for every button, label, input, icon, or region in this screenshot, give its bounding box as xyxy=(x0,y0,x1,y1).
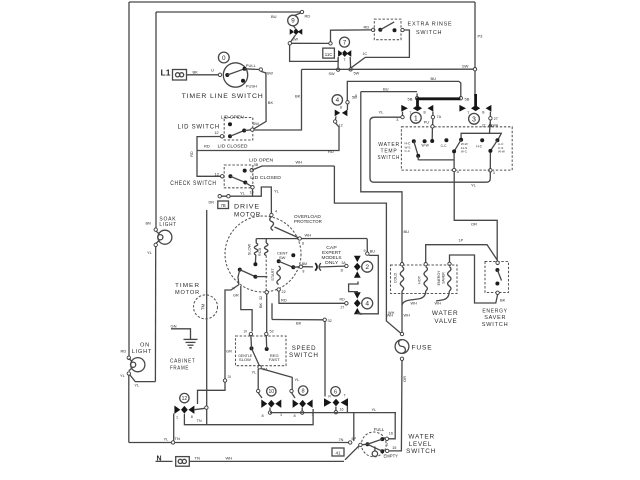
wire GN stub xyxy=(171,329,191,339)
svg-text:YL: YL xyxy=(147,250,153,255)
wire bowtie 12 right to terminal xyxy=(194,408,205,409)
wire rcb dashed down xyxy=(265,256,267,291)
node terminal above connector 10 xyxy=(257,389,260,392)
node terminal 5B near circle4 xyxy=(346,101,349,104)
contact motor lower-left blade xyxy=(240,270,256,277)
svg-text:ONLY: ONLY xyxy=(325,260,339,265)
wire blade to SW terminal xyxy=(244,129,251,132)
wire YL drop to water level switch xyxy=(389,413,396,439)
svg-text:27: 27 xyxy=(341,306,345,310)
node terminal timer line switch right xyxy=(259,68,262,71)
svg-text:SW: SW xyxy=(329,72,336,76)
contact speed slow dot xyxy=(250,346,254,350)
wire outer loop left lower xyxy=(128,374,130,443)
badge circle 7 xyxy=(340,37,350,47)
contact cent sw blade xyxy=(279,261,294,267)
svg-text:7B: 7B xyxy=(221,203,226,208)
svg-text:W-C: W-C xyxy=(461,150,468,154)
switch extra rinse dashed box xyxy=(374,19,401,40)
svg-text:8: 8 xyxy=(303,270,305,274)
svg-text:5B: 5B xyxy=(352,95,357,100)
svg-text:TN: TN xyxy=(175,436,180,441)
svg-text:RD: RD xyxy=(305,14,311,19)
svg-text:WH: WH xyxy=(411,302,418,306)
svg-text:1: 1 xyxy=(176,415,178,419)
contact cent sw dot upper xyxy=(291,253,295,257)
node terminal check switch left xyxy=(221,175,224,178)
contact temp 6 dot xyxy=(495,138,499,142)
svg-text:ENERGY: ENERGY xyxy=(437,270,441,285)
node terminal soak light bottom xyxy=(154,243,157,246)
motor drive motor dashed circle xyxy=(225,216,301,292)
svg-text:LID CLOSED: LID CLOSED xyxy=(250,175,281,180)
wire jog between connectors 2 and 4 xyxy=(349,282,358,292)
node terminal cold top xyxy=(400,263,403,266)
wire YL bus to motor overload xyxy=(253,187,272,213)
svg-text:8: 8 xyxy=(191,415,193,419)
node terminal on light top xyxy=(127,356,130,359)
contact lid open terminal xyxy=(250,169,253,172)
node terminal 15 xyxy=(386,449,389,452)
svg-text:WH: WH xyxy=(296,160,303,165)
connector bowtie 7 xyxy=(338,50,351,57)
connector bowtie 1 xyxy=(401,105,433,112)
lamp soak light xyxy=(158,230,172,244)
svg-text:RD: RD xyxy=(281,298,287,303)
wire L1 to timer line switch xyxy=(187,74,219,76)
switch lid switch dashed box xyxy=(224,118,253,141)
connector bowtie 2 vertical xyxy=(354,256,361,278)
node terminal 12 below connector xyxy=(334,120,337,123)
wire N lead xyxy=(156,460,173,462)
node terminal loop right xyxy=(489,169,492,172)
switch speed switch dashed box xyxy=(236,336,287,366)
badge circle 12 xyxy=(180,393,189,402)
contact temp 5 dot xyxy=(480,138,484,142)
wire 7A to connector 10 xyxy=(257,369,259,389)
svg-text:YL: YL xyxy=(274,188,280,193)
node terminal on light bottom xyxy=(127,372,130,375)
svg-text:P3: P3 xyxy=(478,34,484,39)
svg-text:CHECK SWITCH: CHECK SWITCH xyxy=(170,180,217,187)
wire BK from timer switch right terminal down to lid switch xyxy=(253,71,266,129)
svg-text:OR: OR xyxy=(471,222,477,227)
contact full dot xyxy=(380,437,384,441)
contact PULL blade xyxy=(227,69,244,75)
switch water temp dashed box xyxy=(401,127,512,170)
wire BM to capacitor xyxy=(303,266,313,268)
capacitor cap symbol xyxy=(315,263,317,271)
wire slow coil to dot xyxy=(254,255,256,263)
svg-text:W-W: W-W xyxy=(498,150,505,154)
node terminal SW bus at riser xyxy=(473,68,476,71)
svg-text:T: T xyxy=(344,393,346,397)
svg-text:START: START xyxy=(270,268,275,281)
contact common dot xyxy=(225,73,229,77)
svg-text:DR: DR xyxy=(209,200,215,204)
svg-text:32: 32 xyxy=(259,296,263,300)
contact speed fast dot xyxy=(265,347,269,351)
contact extra rinse blade open xyxy=(380,22,394,30)
node terminal 32 BK xyxy=(323,318,326,321)
port pressure stem xyxy=(372,451,377,456)
svg-text:SW: SW xyxy=(267,71,274,76)
svg-text:WH: WH xyxy=(404,314,411,318)
svg-text:RD: RD xyxy=(204,143,210,148)
wire OR fuse to water level switch xyxy=(389,361,402,451)
wire GR below terminal to connector 12 xyxy=(198,382,226,404)
contact temp 4 blade xyxy=(454,140,461,152)
wire bowtie 8 drop xyxy=(301,408,303,412)
svg-text:DRIVE: DRIVE xyxy=(234,204,260,211)
svg-text:SW: SW xyxy=(253,121,260,126)
wire left triangle to 3 terminal xyxy=(402,112,404,116)
contact check common dot xyxy=(228,174,232,178)
svg-text:3A: 3A xyxy=(342,261,347,265)
wire lower contact to RCB winding xyxy=(255,276,267,278)
wire lid switch left to check switch left xyxy=(197,137,221,177)
node terminal 7A right of circle 1 xyxy=(431,115,434,118)
wire BK jog to bus 319 xyxy=(271,303,273,319)
svg-text:7: 7 xyxy=(357,447,359,451)
contact temp 3 dot xyxy=(444,138,448,142)
svg-text:YL: YL xyxy=(379,110,385,115)
svg-text:15: 15 xyxy=(392,446,396,450)
svg-text:C-C: C-C xyxy=(441,144,447,148)
svg-text:FAST: FAST xyxy=(269,358,281,362)
svg-text:LIGHT: LIGHT xyxy=(132,349,153,355)
svg-text:BK: BK xyxy=(500,298,506,303)
svg-text:RD: RD xyxy=(190,151,194,157)
svg-text:TEMP: TEMP xyxy=(381,148,398,154)
wire check lid-open to WH lead xyxy=(252,166,335,170)
wire bold 5B pair xyxy=(417,97,461,100)
node terminal extra rinse right xyxy=(401,28,404,31)
node terminal soak light top xyxy=(154,228,157,231)
svg-text:MOTOR: MOTOR xyxy=(234,211,261,218)
svg-text:10: 10 xyxy=(269,389,275,395)
valve water valve dashed box xyxy=(391,265,458,294)
svg-text:2T: 2T xyxy=(494,117,499,121)
contact blade to lid closed xyxy=(230,176,245,182)
contact common dot xyxy=(366,442,370,446)
svg-text:2I: 2I xyxy=(341,269,344,273)
node terminal YL bus 1 xyxy=(218,195,221,198)
svg-text:WATER: WATER xyxy=(408,433,435,440)
wire blade to bottom terminal xyxy=(245,183,251,187)
svg-text:FRAME: FRAME xyxy=(170,366,189,372)
svg-text:41: 41 xyxy=(335,451,341,456)
node terminal SW junction xyxy=(288,42,291,45)
svg-text:C-C: C-C xyxy=(405,149,411,153)
svg-text:4: 4 xyxy=(336,97,340,104)
contact empty dot xyxy=(380,449,384,453)
wire terminal to connector right triangle xyxy=(346,104,348,110)
node terminal temp bottom A xyxy=(452,168,455,171)
node terminal speed 7A xyxy=(258,366,261,369)
svg-text:SLOW: SLOW xyxy=(239,358,252,362)
svg-text:16: 16 xyxy=(389,431,393,435)
svg-text:RD: RD xyxy=(340,297,346,301)
wire 5B drop xyxy=(416,93,418,96)
wire inner loop top (BU line) xyxy=(156,11,302,13)
node terminal above connector 8 xyxy=(290,389,293,392)
node terminal below 8 xyxy=(301,411,304,414)
svg-text:SW: SW xyxy=(462,63,469,68)
svg-text:3I: 3I xyxy=(228,375,231,379)
node terminal lid switch left xyxy=(220,135,223,138)
wire bowtie 10 drop xyxy=(269,408,271,412)
svg-text:HOT: HOT xyxy=(418,275,422,284)
wire bowtie 6 right drop xyxy=(346,406,348,413)
contact speed blade xyxy=(252,348,260,365)
svg-text:YL: YL xyxy=(372,407,378,412)
wire hot bottom join xyxy=(402,291,426,305)
wire energy saver coil loop xyxy=(450,255,498,303)
svg-text:SAVER: SAVER xyxy=(484,315,506,321)
node terminal energy saver bottom xyxy=(496,291,499,294)
contact temp 4 dot xyxy=(459,138,463,142)
svg-text:RD: RD xyxy=(121,349,127,354)
svg-text:BM: BM xyxy=(302,262,307,266)
svg-text:BU: BU xyxy=(271,14,277,19)
node terminal timer motor bottom xyxy=(205,406,208,409)
wire YL loop around water temp switch xyxy=(370,117,490,182)
box connector 7B xyxy=(218,201,229,209)
wire N line to water level switch xyxy=(190,460,345,462)
svg-text:2: 2 xyxy=(365,264,369,271)
svg-text:12: 12 xyxy=(339,124,343,128)
badge circle 0 xyxy=(218,52,229,63)
svg-text:EXTRA RINSE: EXTRA RINSE xyxy=(408,22,453,28)
wire BU lower segment xyxy=(361,91,417,93)
svg-text:8: 8 xyxy=(262,414,264,418)
wire inner loop left below soak light xyxy=(154,245,156,382)
wire SW bus horizontal xyxy=(302,68,474,70)
wire BK drop from SW bus corner to lid switch xyxy=(253,69,302,130)
svg-text:YL: YL xyxy=(134,382,140,387)
svg-text:3: 3 xyxy=(493,171,495,175)
contact extra rinse left dot xyxy=(378,28,382,32)
svg-text:9: 9 xyxy=(291,18,295,25)
wire WH from check switch right route xyxy=(334,166,400,333)
wire bowtie 7 right leg diagonal xyxy=(349,57,351,68)
svg-text:YL: YL xyxy=(471,183,477,188)
connector bowtie 10 xyxy=(261,400,281,408)
svg-text:GR: GR xyxy=(226,349,232,354)
svg-text:VALVE: VALVE xyxy=(434,318,457,325)
coil SLOW winding xyxy=(254,243,257,255)
node terminal SW bus right of bowtie7 xyxy=(349,68,352,71)
node terminal energy saver top xyxy=(496,261,499,264)
node terminal hot top xyxy=(424,263,427,266)
wire jog joining ON light bottom xyxy=(129,374,156,382)
wire BU upper from extra rinse area xyxy=(347,81,459,100)
svg-text:SWITCH: SWITCH xyxy=(482,322,509,328)
node terminal fuse top xyxy=(400,332,403,335)
lamp on light xyxy=(131,358,145,372)
svg-text:ON: ON xyxy=(140,343,150,349)
node terminal YL bus 2 xyxy=(227,195,230,198)
svg-text:GN: GN xyxy=(171,324,177,329)
contact es dot bottom xyxy=(495,282,499,286)
node terminal GR at speed switch xyxy=(223,379,226,382)
svg-text:6P: 6P xyxy=(352,437,357,441)
node terminal 5B left xyxy=(415,97,418,100)
badge circle 3 xyxy=(469,113,480,124)
wire bowtie 6 diamond drop xyxy=(335,407,337,411)
svg-text:SWITCH: SWITCH xyxy=(378,155,401,161)
wire 2T down into box xyxy=(489,120,492,133)
svg-text:1C: 1C xyxy=(363,52,368,56)
box 41 xyxy=(332,448,344,456)
svg-text:12: 12 xyxy=(215,171,220,176)
node terminal motor WH xyxy=(298,237,301,240)
svg-text:GR: GR xyxy=(233,294,239,298)
svg-text:CABINET: CABINET xyxy=(170,359,196,365)
node terminal motor 32 xyxy=(265,291,268,294)
wire motor 32 to speed switch 52 xyxy=(266,294,268,332)
node terminal lid switch right xyxy=(251,128,254,131)
coil RCB winding xyxy=(265,239,267,243)
wire inside link xyxy=(417,156,419,160)
node terminal at inner top right xyxy=(300,10,303,13)
svg-text:5B: 5B xyxy=(408,96,413,101)
contact temp 1 blade xyxy=(414,141,418,156)
wire bowtie 12 left drop to bus xyxy=(173,414,175,442)
switch energy saver dashed box xyxy=(485,262,509,293)
wire circle 9 to inner top terminal xyxy=(295,13,302,16)
svg-text:1: 1 xyxy=(280,413,282,417)
wire OR from temp switch to energy saver xyxy=(454,172,497,261)
svg-text:SLOW: SLOW xyxy=(246,243,251,255)
node terminal 16 xyxy=(385,437,388,440)
svg-text:11C: 11C xyxy=(325,52,333,57)
svg-text:12: 12 xyxy=(214,130,219,135)
svg-text:SAVER: SAVER xyxy=(442,272,446,284)
wire bowtie 12 diamond drop and TN run xyxy=(184,409,313,425)
svg-text:1: 1 xyxy=(414,115,418,122)
svg-text:U: U xyxy=(211,68,214,73)
wire timer motor feed xyxy=(206,210,208,406)
wire bowtie 7 left leg to SW bus xyxy=(337,57,339,68)
wire GR left branch xyxy=(225,285,239,379)
wire TN drop next xyxy=(206,409,208,424)
svg-text:12: 12 xyxy=(182,396,188,402)
contact extra rinse right dot xyxy=(393,28,397,32)
node terminal BM xyxy=(299,265,302,268)
svg-text:5W: 5W xyxy=(354,72,360,76)
svg-text:BK: BK xyxy=(268,100,274,105)
svg-text:8: 8 xyxy=(294,414,296,418)
wire SW riser bold into water temp connector 3 xyxy=(474,94,477,106)
wire motor 31 to speed switch 3I xyxy=(241,286,252,332)
switch timer line switch body xyxy=(223,63,247,87)
svg-text:BK: BK xyxy=(296,321,302,326)
svg-text:OR: OR xyxy=(402,376,407,382)
connector pair below circle 4 xyxy=(335,110,348,117)
svg-text:LID CLOSED: LID CLOSED xyxy=(218,143,248,148)
svg-text:FUSE: FUSE xyxy=(412,345,433,352)
wire 7A drop into box xyxy=(432,119,434,125)
svg-text:OVERLOAD: OVERLOAD xyxy=(294,214,322,219)
svg-text:8: 8 xyxy=(302,389,305,395)
svg-text:TN: TN xyxy=(195,455,200,460)
contact water level blade to full xyxy=(368,439,383,444)
wire right triangle to 2T terminal xyxy=(489,112,491,117)
connector bowtie 9 xyxy=(290,28,303,35)
switch water level switch dashed circle xyxy=(361,432,386,457)
wire BK bus xyxy=(272,319,323,321)
svg-text:32: 32 xyxy=(328,319,332,323)
svg-text:0: 0 xyxy=(222,55,226,62)
wire connector down to terminal 12 xyxy=(334,116,337,120)
svg-text:TM: TM xyxy=(201,303,206,310)
svg-text:T: T xyxy=(467,111,469,115)
coil energy saver solenoid xyxy=(448,267,451,291)
plug connector L1 xyxy=(173,70,187,81)
svg-text:LIGHT: LIGHT xyxy=(159,222,177,228)
badge circle 8 xyxy=(298,386,307,395)
wire C loop terminal 9 around connectors 2 and 4 xyxy=(358,255,379,313)
svg-text:BN: BN xyxy=(146,221,152,225)
svg-text:3I: 3I xyxy=(244,330,247,334)
contact blade to lid closed xyxy=(230,131,244,137)
svg-text:YL: YL xyxy=(240,190,246,195)
svg-text:22: 22 xyxy=(282,290,286,294)
wire riser to extra rinse RD lead xyxy=(331,30,372,42)
svg-text:COLD: COLD xyxy=(394,272,398,283)
wire RD branch to connector 12 terminal xyxy=(197,123,339,150)
connector bowtie 12 xyxy=(174,406,194,414)
node terminal 27 xyxy=(345,302,348,305)
node terminal bus right end xyxy=(349,441,352,444)
svg-text:WATER: WATER xyxy=(432,310,459,317)
node terminal 3A xyxy=(345,264,348,267)
svg-text:WH: WH xyxy=(305,232,312,237)
wire motor top bus xyxy=(256,238,367,240)
wire inner loop left (BN/YL side) xyxy=(155,12,157,230)
svg-text:RD: RD xyxy=(328,149,334,154)
wire terminal into bowtie 10 xyxy=(258,393,262,398)
svg-text:L1: L1 xyxy=(161,68,171,78)
svg-text:7N: 7N xyxy=(339,438,344,442)
wire terminal into bowtie 8 xyxy=(292,393,296,398)
wire es coil bottom join xyxy=(436,291,449,301)
wire BU drop to 5B right xyxy=(459,81,461,96)
wire diagonal N to water level switch contact 7 xyxy=(345,444,361,460)
node terminal 5B right xyxy=(459,97,462,100)
svg-text:YL: YL xyxy=(295,377,301,382)
contact cent sw pivot xyxy=(277,259,281,263)
wire riser to connector 2 terminal 9 xyxy=(366,239,368,253)
svg-text:TN: TN xyxy=(197,419,202,423)
node terminal 2T xyxy=(489,117,492,120)
wire SW terminal to riser x330 xyxy=(292,42,331,44)
svg-text:RD: RD xyxy=(364,24,370,29)
box 11C xyxy=(323,48,335,58)
svg-text:LID OPEN: LID OPEN xyxy=(249,157,273,162)
badge circle 2 xyxy=(362,261,373,272)
svg-text:WH: WH xyxy=(388,311,395,315)
svg-text:BK: BK xyxy=(295,94,301,99)
wire outer loop left (RD/YL side) xyxy=(128,2,130,358)
badge circle 1 xyxy=(410,112,421,123)
contact motor lower-left pivot xyxy=(238,268,242,272)
svg-text:WH: WH xyxy=(226,455,233,460)
wire motor left contact to GR edge xyxy=(238,270,240,285)
wire BK drop to connector 6 xyxy=(324,322,326,397)
